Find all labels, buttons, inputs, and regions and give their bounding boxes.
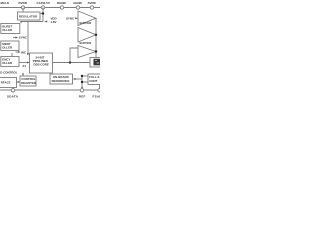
pin REF	[80, 89, 83, 92]
node junction on CAP rail	[42, 12, 44, 14]
op-amp buffer2	[78, 28, 96, 43]
block burst controller	[1, 24, 20, 34]
wire incr out arrow	[16, 51, 20, 53]
wire under regulator	[21, 22, 43, 23]
wire DVDD to regulator	[22, 8, 24, 13]
node junction REF mid	[81, 81, 83, 83]
pin CAP/2.5V	[41, 6, 44, 9]
svg-text:SYNC: SYNC	[66, 17, 75, 21]
svg-text:DVDD: DVDD	[19, 1, 28, 5]
block control register	[20, 76, 36, 86]
dds core block	[30, 53, 53, 73]
block frequency controller	[1, 57, 19, 67]
wire SDATA up arrow	[12, 89, 14, 91]
wire stub core to control register	[22, 74, 24, 76]
block increment controller	[1, 41, 19, 51]
block interface	[0, 78, 17, 88]
block on-board reference	[50, 74, 73, 84]
wire up to buffer T3	[70, 48, 78, 63]
pin DGND	[60, 6, 63, 9]
wire 24-bit bus into core	[19, 62, 29, 64]
svg-text:FSADJ: FSADJ	[93, 95, 101, 99]
svg-text:OLLER: OLLER	[2, 46, 13, 50]
wire interface to control register arrow	[17, 81, 19, 83]
wire FSADJ stub	[99, 85, 101, 89]
pin AVDD	[90, 6, 93, 9]
wire sync out arrow	[13, 37, 17, 39]
wire rail down to DDS core	[27, 22, 30, 55]
svg-text:RFACE: RFACE	[1, 81, 11, 85]
svg-text:MCLK: MCLK	[1, 1, 10, 5]
svg-text:SDATA: SDATA	[7, 95, 19, 99]
svg-text:D CONTROL: D CONTROL	[0, 71, 17, 75]
svg-text:DDS CORE: DDS CORE	[34, 63, 49, 67]
svg-text:BUFFER: BUFFER	[80, 41, 93, 45]
svg-text:BUFFER: BUFFER	[80, 21, 93, 25]
op-amp buffer3	[78, 46, 96, 58]
output pad box	[90, 58, 102, 68]
svg-text:AGND: AGND	[73, 1, 83, 5]
wire up stub into frequency controller	[11, 53, 13, 57]
wire arrow into reference	[75, 78, 82, 80]
svg-text:INC: INC	[21, 51, 27, 55]
wire CAP rail	[42, 8, 44, 22]
wire regulator to CAP rail	[40, 13, 43, 15]
svg-text:CONT: CONT	[89, 79, 97, 83]
top power rail wire	[0, 7, 100, 9]
svg-text:OLLER: OLLER	[2, 61, 13, 65]
svg-text:SYNC: SYNC	[19, 36, 28, 40]
svg-text:REFERENCE: REFERENCE	[52, 79, 70, 83]
svg-text:REF: REF	[79, 95, 86, 99]
pin FSADJ	[98, 89, 101, 92]
wire right rail	[95, 18, 97, 58]
wire arrow down to REF pin	[81, 87, 83, 89]
pin SDATA	[11, 89, 14, 92]
svg-text:REGISTER: REGISTER	[21, 81, 37, 85]
regulator U1	[18, 12, 41, 20]
node VDD 2.5V label arrow	[44, 21, 47, 23]
svg-text:AVDD: AVDD	[88, 1, 97, 5]
svg-text:DGND: DGND	[57, 1, 67, 5]
svg-text:CAP/2.5V: CAP/2.5V	[37, 1, 50, 5]
pin DVDD	[21, 6, 24, 9]
wire REF tree vertical	[81, 76, 83, 88]
node junction buffer2	[95, 34, 97, 36]
node junction on output	[69, 61, 71, 63]
svg-text:24: 24	[23, 64, 27, 68]
svg-text:REGULATOR: REGULATOR	[19, 15, 38, 19]
block full-scale control	[88, 74, 102, 85]
bottom border wire	[0, 89, 100, 91]
svg-text:OLLER: OLLER	[2, 28, 13, 32]
wire to full-scale control top	[82, 75, 88, 77]
wire core output	[53, 62, 91, 64]
node junction REF top	[81, 75, 83, 77]
svg-text:1.8V: 1.8V	[51, 20, 57, 24]
pin AGND	[76, 6, 79, 9]
op-amp buffer1	[78, 11, 96, 26]
node junction buffer3	[95, 50, 97, 52]
wire to full-scale control bottom	[82, 81, 88, 83]
